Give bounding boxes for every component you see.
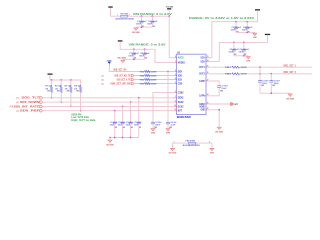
svg-text:BLM18AG601SN1D: BLM18AG601SN1D xyxy=(116,18,135,21)
ground (under C13) xyxy=(152,127,154,130)
capacitor C5 xyxy=(233,42,235,44)
pin OUT2 (right) xyxy=(206,73,210,75)
ground rail of C1 C2 xyxy=(136,26,153,28)
power symbol 3V3 (top right) xyxy=(255,9,260,10)
power symbol VDDIO (right) xyxy=(265,34,270,35)
port INT xyxy=(231,103,234,106)
svg-text:DGND: DGND xyxy=(253,37,257,39)
pin VDDIO (left) xyxy=(173,62,177,64)
pin SCK2 (left) xyxy=(173,105,177,107)
wire VDD to IC pin 1 xyxy=(169,16,176,58)
svg-text:DNC HGND: DNC HGND xyxy=(215,132,223,134)
schematic background xyxy=(0,0,320,155)
svg-text:USB_SCT_A_TX: USB_SCT_A_TX xyxy=(117,78,131,81)
ground rail of C3 C4 xyxy=(236,31,255,33)
svg-text:R4 10K: R4 10K xyxy=(74,85,81,88)
ferrite bead FB2 bridge xyxy=(173,143,212,147)
wire bus USB_INT_RATE xyxy=(43,105,177,107)
wire R4 to bus xyxy=(80,93,82,111)
svg-text:SDI: SDI xyxy=(178,71,183,73)
power symbol 3V3 (pull-ups) xyxy=(48,74,53,75)
wire CSB bypass xyxy=(153,92,176,122)
ground HGND (bridge right) xyxy=(211,147,213,150)
svg-text:19: 19 xyxy=(207,102,209,104)
svg-text:HGND: HGND xyxy=(210,152,214,154)
svg-text:INT: INT xyxy=(178,111,183,113)
wire bus SD0_DOWN xyxy=(43,101,177,103)
pin SCK (right) xyxy=(206,57,210,59)
svg-text:2: 2 xyxy=(129,15,130,17)
svg-text:BLM18AG601SN1D: BLM18AG601SN1D xyxy=(183,144,200,147)
pin SDO2 (left) xyxy=(173,101,177,103)
svg-text:1: 1 xyxy=(174,141,175,143)
svg-text:5%: 5% xyxy=(67,91,70,93)
ground DNC HGND (bottom) xyxy=(109,138,111,140)
pin SDI2 (left) xyxy=(173,97,177,99)
svg-text:DGND: DGND xyxy=(246,61,250,63)
svg-text:GND: GND xyxy=(201,110,206,112)
svg-text:7: 7 xyxy=(175,61,176,63)
resistor R4 pull-up xyxy=(80,80,82,87)
svg-text:600R: 600R xyxy=(241,67,247,69)
svg-text:USB_SCT_WX_RX: USB_SCT_WX_RX xyxy=(110,83,130,85)
wire bus SD0_PBF xyxy=(43,110,177,112)
capacitor C9 xyxy=(114,110,116,112)
svg-text:DNC HGND: DNC HGND xyxy=(286,98,294,100)
svg-text:FB1 600R: FB1 600R xyxy=(120,14,128,16)
ground rail of C5 C6 xyxy=(234,55,248,57)
wire R3 to bus xyxy=(70,93,72,107)
svg-text:SDO2: SDO2 xyxy=(178,102,184,104)
capacitor C15 xyxy=(259,67,261,80)
pin INT (left) xyxy=(173,110,177,112)
pin OUT1 (right) xyxy=(206,66,210,68)
svg-text:VIN RANGE: 3 to 3.6V: VIN RANGE: 3 to 3.6V xyxy=(129,43,167,46)
ground rail bottom xyxy=(110,137,139,139)
capacitor C16 xyxy=(270,74,272,81)
power symbol VDD_3V3 (top left) xyxy=(108,6,112,7)
svg-text:DNC HGND: DNC HGND xyxy=(169,152,177,154)
svg-text:13: 13 xyxy=(207,56,209,58)
svg-text:ADDR PIN: ADDR PIN xyxy=(71,113,81,116)
svg-text:BME680: BME680 xyxy=(177,115,191,119)
svg-text:SDO: SDO xyxy=(178,75,182,77)
svg-text:GND2: GND2 xyxy=(199,104,205,106)
capacitor C2 xyxy=(152,15,154,17)
wire top right rail xyxy=(206,10,258,57)
svg-text:600R: 600R xyxy=(151,71,157,73)
pin SCK (left) xyxy=(173,79,177,81)
power symbol VDDIO (mid left) xyxy=(118,40,123,41)
svg-text:8: 8 xyxy=(175,56,176,58)
svg-text:OUT2: OUT2 xyxy=(199,74,205,76)
svg-text:(4): (4) xyxy=(101,74,105,77)
svg-text:DNC HGND: DNC HGND xyxy=(106,144,114,146)
svg-text:VDDIO: VDDIO xyxy=(178,62,185,64)
svg-text:15: 15 xyxy=(207,66,209,68)
svg-text:SD0_DOWN: SD0_DOWN xyxy=(20,102,40,104)
pin CSB (left) xyxy=(173,83,177,85)
ground rail of C7 C8 xyxy=(123,58,145,60)
svg-text:2: 2 xyxy=(175,91,176,93)
resistor R1 pull-up xyxy=(51,80,53,87)
resistor R3 pull-up xyxy=(70,80,72,87)
svg-text:SDI2: SDI2 xyxy=(178,98,184,100)
wire CAPN loop xyxy=(210,87,220,96)
ground (under C14) xyxy=(167,127,169,130)
capacitor C14 xyxy=(166,121,170,123)
svg-text:Low: 0x76 data: Low: 0x76 data xyxy=(71,116,89,119)
svg-text:20: 20 xyxy=(207,108,209,110)
junction row DNC_SCT_4 xyxy=(270,73,272,75)
pin SDO (right) xyxy=(206,60,210,62)
svg-text:9: 9 xyxy=(175,101,176,103)
wire from blue port to row 1 xyxy=(109,66,176,72)
ground DNC HGND (bridge left) xyxy=(172,147,174,150)
svg-text:(4): (4) xyxy=(101,82,105,85)
wire VDD_3V3 down xyxy=(111,8,170,17)
pin GND2 (right) xyxy=(206,103,210,105)
svg-text:SCK2: SCK2 xyxy=(178,106,184,108)
wire GND pin down xyxy=(210,110,220,127)
pin CAPP (right) xyxy=(206,80,210,82)
svg-text:18: 18 xyxy=(207,94,209,96)
op IC U2 BME680 body xyxy=(176,54,206,114)
capacitor C10 xyxy=(122,106,124,108)
capacitor C4 xyxy=(246,21,248,23)
svg-text:USB_INT_RATE: USB_INT_RATE xyxy=(12,105,40,108)
wire row DNC_SCT_4 xyxy=(210,73,313,75)
ferrite bead FB1 xyxy=(121,15,128,17)
svg-text:OUT1: OUT1 xyxy=(199,67,205,69)
svg-text:SD0_PBF: SD0_PBF xyxy=(20,111,41,113)
wire bus SD0_TLT xyxy=(43,97,177,99)
svg-text:DNC HGND: DNC HGND xyxy=(117,58,126,60)
ground DNC HGND (right) xyxy=(289,92,291,95)
svg-text:(4): (4) xyxy=(101,78,105,81)
pin CAPN (right) xyxy=(206,95,210,97)
capacitor C1 xyxy=(141,15,143,17)
svg-text:DNC HGND: DNC HGND xyxy=(132,32,140,34)
capacitor C3 xyxy=(235,21,237,23)
junction VDD_BME xyxy=(168,15,170,17)
svg-text:High: 0x77 no data: High: 0x77 no data xyxy=(71,119,96,122)
pull-up rail xyxy=(50,75,81,80)
wire R2 to bus xyxy=(60,93,62,103)
capacitor C11 xyxy=(130,101,132,103)
pin GND (right) xyxy=(206,109,210,111)
pin AVDD (left) xyxy=(173,57,177,59)
capacitor C7 xyxy=(133,48,135,50)
wire row1 bypass xyxy=(167,72,169,123)
svg-text:HGND: HGND xyxy=(166,133,170,135)
svg-text:600R: 600R xyxy=(151,75,157,77)
svg-text:5: 5 xyxy=(175,74,176,76)
svg-text:SD0_TLT: SD0_TLT xyxy=(21,98,40,100)
junction row DNC_SCT_1 xyxy=(259,66,261,68)
svg-text:RANGE: 3V to 3.63V or 1.8V to: RANGE: 3V to 3.63V or 1.8V to 3.63V xyxy=(189,17,255,20)
pin SDI (left) xyxy=(173,71,177,73)
svg-text:AVDD: AVDD xyxy=(178,57,184,60)
junction crossing xyxy=(259,73,261,75)
svg-text:1: 1 xyxy=(117,15,118,17)
junction row1 bypass xyxy=(167,71,169,73)
wire VDDIO rail xyxy=(120,41,176,62)
capacitor C8 xyxy=(144,48,146,50)
wire CAPP loop xyxy=(210,81,220,86)
svg-text:SCK: SCK xyxy=(178,79,183,81)
svg-text:CSB2: CSB2 xyxy=(178,92,184,94)
wire R1 to bus xyxy=(51,93,53,98)
ground DGND (right top) xyxy=(254,31,256,34)
ground DNC HGND (below INT) xyxy=(218,125,220,128)
wire row USB_SCT_WX_RX xyxy=(134,83,176,85)
svg-text:11: 11 xyxy=(174,109,176,111)
svg-text:CSB: CSB xyxy=(178,83,183,85)
wire row DNC_SCT_1 xyxy=(210,66,313,68)
wire row USB_SCT_A_TX xyxy=(134,79,176,81)
svg-text:SDO: SDO xyxy=(201,61,205,63)
svg-text:10: 10 xyxy=(174,105,176,107)
svg-text:5%: 5% xyxy=(57,91,60,93)
wire VDDIO rail to IC pin xyxy=(206,35,268,62)
svg-text:5%: 5% xyxy=(77,91,80,93)
junction GND corner xyxy=(218,109,220,111)
svg-text:USB_SCT_RX: USB_SCT_RX xyxy=(113,69,127,71)
capacitor C12 xyxy=(138,97,140,99)
svg-text:DNC_SCT_4: DNC_SCT_4 xyxy=(284,71,297,74)
ground rail right xyxy=(260,92,290,94)
svg-text:AGND: AGND xyxy=(199,106,205,109)
ground DGND (right mid) xyxy=(247,55,249,58)
svg-text:1: 1 xyxy=(175,96,176,98)
svg-text:CAPN: CAPN xyxy=(199,95,205,98)
svg-text:DNC_SCT_1: DNC_SCT_1 xyxy=(284,65,297,67)
capacitor C17 xyxy=(217,85,221,87)
svg-text:HGND: HGND xyxy=(151,133,155,135)
svg-text:VDD_BME: VDD_BME xyxy=(166,6,174,8)
svg-text:600R: 600R xyxy=(151,79,157,81)
pin SDO (left) xyxy=(173,75,177,77)
svg-text:16: 16 xyxy=(207,72,209,74)
svg-text:SCK: SCK xyxy=(201,58,206,60)
svg-text:17: 17 xyxy=(207,79,209,81)
capacitor C6 xyxy=(243,42,245,44)
svg-text:600R: 600R xyxy=(151,83,157,85)
svg-text:(4): (4) xyxy=(16,97,20,100)
svg-text:2: 2 xyxy=(209,141,210,143)
svg-text:5%: 5% xyxy=(47,91,50,93)
svg-text:6: 6 xyxy=(175,70,176,72)
pin CSB2 (left) xyxy=(173,91,177,93)
svg-text:600R: 600R xyxy=(241,74,247,76)
ground DGND (top) xyxy=(135,26,137,29)
wire INT out xyxy=(210,103,231,105)
wire row USB_SCT_WX_TX xyxy=(134,75,176,77)
capacitor C13 xyxy=(151,121,155,123)
svg-text:USB_SCT_WX_TX: USB_SCT_WX_TX xyxy=(114,75,130,77)
svg-text:3: 3 xyxy=(175,82,176,84)
resistor R2 pull-up xyxy=(60,80,62,87)
svg-text:CAPP: CAPP xyxy=(199,80,205,83)
